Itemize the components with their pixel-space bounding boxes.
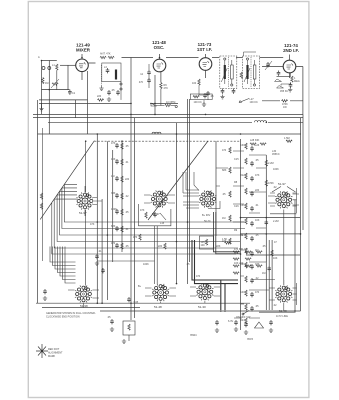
svg-text:L26: L26	[255, 144, 260, 147]
svg-text:68K: 68K	[222, 169, 227, 172]
svg-text:.05: .05	[210, 95, 214, 98]
svg-text:.02: .02	[273, 304, 277, 307]
svg-text:C1: C1	[72, 92, 76, 95]
svg-text:220: 220	[158, 245, 163, 248]
svg-text:1M: 1M	[262, 272, 265, 275]
svg-text:1.5K: 1.5K	[222, 238, 227, 241]
svg-text:470: 470	[133, 236, 138, 239]
svg-text:51-30: 51-30	[198, 305, 206, 309]
svg-text:.05: .05	[125, 245, 129, 248]
svg-text:10 OHM: 10 OHM	[166, 101, 175, 104]
svg-text:.05: .05	[111, 89, 115, 92]
svg-text:1W: 1W	[283, 106, 287, 109]
svg-text:35C5: 35C5	[247, 338, 254, 341]
svg-text:470: 470	[139, 81, 144, 84]
svg-text:1M: 1M	[222, 217, 225, 220]
svg-text:.05: .05	[262, 245, 266, 248]
svg-text:1M: 1M	[45, 82, 48, 85]
svg-text:C30: C30	[240, 144, 245, 147]
svg-text:R12: R12	[240, 174, 245, 177]
svg-text:C45: C45	[134, 301, 139, 304]
svg-text:.01: .01	[125, 161, 129, 164]
svg-text:35W4: 35W4	[190, 334, 197, 337]
svg-text:68K: 68K	[111, 225, 116, 228]
svg-text:100 KC: 100 KC	[194, 101, 203, 104]
svg-text:50-70: 50-70	[204, 220, 211, 223]
svg-text:47: 47	[274, 241, 277, 244]
svg-text:B+: B+	[138, 285, 142, 288]
svg-text:.05: .05	[222, 193, 226, 196]
svg-text:100K: 100K	[111, 208, 117, 211]
svg-text:470 68K 1M: 470 68K 1M	[234, 248, 247, 251]
svg-text:100: 100	[192, 82, 197, 85]
svg-text:.05: .05	[255, 159, 259, 162]
svg-text:220: 220	[255, 189, 260, 192]
svg-text:2.2M: 2.2M	[273, 220, 279, 223]
svg-text:ON-OFF SW: ON-OFF SW	[236, 316, 251, 319]
svg-text:470: 470	[222, 149, 227, 152]
svg-text:455 KC: 455 KC	[280, 90, 289, 93]
svg-text:47K: 47K	[111, 142, 116, 145]
svg-text:470: 470	[255, 291, 260, 294]
svg-text:C40: C40	[240, 291, 245, 294]
svg-text:100 KC: 100 KC	[250, 101, 259, 104]
svg-text:L3: L3	[104, 66, 107, 69]
svg-text:47K: 47K	[255, 174, 260, 177]
svg-text:MEG: MEG	[294, 80, 300, 83]
svg-text:L1: L1	[52, 64, 55, 67]
svg-text:L28 33K: L28 33K	[250, 139, 260, 142]
svg-text:2ND I.F.: 2ND I.F.	[283, 48, 299, 53]
svg-text:1M: 1M	[111, 175, 114, 178]
svg-text:.02: .02	[273, 186, 277, 189]
svg-text:220: 220	[125, 178, 130, 181]
svg-text:470: 470	[111, 242, 116, 245]
svg-text:105: 105	[201, 241, 206, 244]
svg-text:455KC: 455KC	[272, 153, 280, 156]
svg-text:51-48: 51-48	[154, 305, 162, 309]
svg-text:117V LINE: 117V LINE	[276, 315, 288, 318]
svg-text:R14: R14	[240, 234, 245, 237]
svg-text:22K: 22K	[216, 245, 221, 248]
svg-text:1M: 1M	[255, 249, 258, 252]
svg-text:2.2M: 2.2M	[268, 162, 274, 165]
svg-text:33K: 33K	[111, 192, 116, 195]
svg-text:.01: .01	[98, 250, 102, 253]
svg-text:10K 220: 10K 220	[234, 262, 244, 265]
svg-text:100K: 100K	[143, 263, 149, 266]
svg-text:10K: 10K	[255, 219, 260, 222]
svg-text:C15: C15	[234, 158, 239, 161]
svg-text:R9: R9	[234, 229, 238, 232]
svg-text:ANT. 47K: ANT. 47K	[100, 53, 111, 56]
svg-text:L15: L15	[160, 222, 165, 225]
svg-text:6.3V: 6.3V	[228, 320, 233, 323]
svg-text:47K: 47K	[164, 87, 169, 90]
svg-text:R24: R24	[240, 319, 245, 322]
svg-text:CLOCKWISE END POSITION: CLOCKWISE END POSITION	[46, 316, 80, 319]
svg-text:470K: 470K	[268, 182, 274, 185]
svg-text:.05: .05	[186, 263, 190, 266]
svg-text:470: 470	[196, 275, 201, 278]
svg-text:B+ 90V: B+ 90V	[202, 214, 211, 217]
svg-text:.05: .05	[107, 316, 111, 319]
svg-text:.01: .01	[255, 204, 259, 207]
svg-text:.05: .05	[125, 145, 129, 148]
svg-text:10K: 10K	[111, 158, 116, 161]
svg-text:A: A	[38, 56, 40, 59]
svg-text:100: 100	[201, 244, 206, 247]
svg-text:OSC.: OSC.	[154, 45, 165, 50]
svg-text:1.5M: 1.5M	[284, 137, 290, 140]
svg-text:R8: R8	[234, 181, 238, 184]
svg-text:47K: 47K	[140, 209, 145, 212]
svg-text:10K: 10K	[273, 257, 278, 260]
svg-text:1ST I.F.: 1ST I.F.	[197, 47, 212, 52]
svg-text:C16: C16	[234, 205, 239, 208]
svg-text:.05: .05	[255, 305, 259, 308]
svg-text:51-97: 51-97	[79, 211, 87, 215]
svg-text:51-97: 51-97	[278, 182, 286, 186]
svg-text:.05: .05	[125, 211, 129, 214]
svg-text:MIXER: MIXER	[76, 48, 91, 53]
svg-text:.01: .01	[125, 228, 129, 231]
svg-text:220: 220	[97, 95, 102, 98]
svg-text:12: 12	[140, 73, 143, 76]
svg-text:.02: .02	[125, 195, 129, 198]
svg-text:C31: C31	[240, 204, 245, 207]
svg-text:.05: .05	[255, 234, 259, 237]
svg-text:100K: 100K	[273, 168, 279, 171]
svg-text:47K: 47K	[90, 223, 95, 226]
svg-text:51-98: 51-98	[80, 304, 88, 308]
svg-text:MARK: MARK	[48, 355, 56, 358]
